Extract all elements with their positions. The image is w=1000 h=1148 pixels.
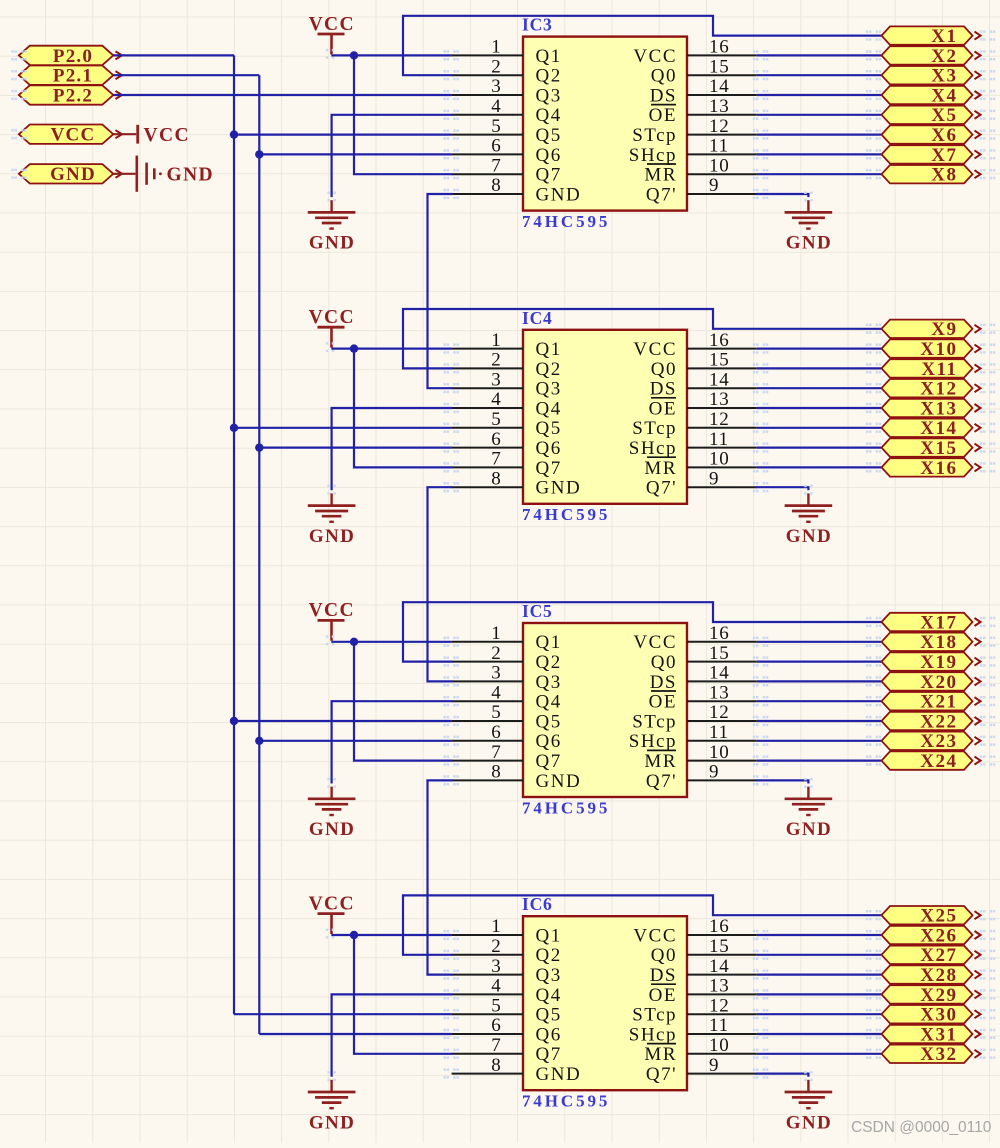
svg-text:13: 13 — [709, 682, 730, 703]
svg-text:3: 3 — [491, 369, 501, 390]
svg-text:Q7': Q7' — [646, 1064, 677, 1085]
IC3 pin 3 stub — [443, 76, 523, 100]
wire IC6 pin6 from P2.1 rail — [259, 1033, 451, 1035]
wire IC3 pin 10 to port X8 — [757, 173, 881, 175]
svg-text:GND: GND — [786, 819, 832, 840]
wire IC4 pin9 to ground — [757, 487, 809, 489]
svg-text:STcp: STcp — [632, 1005, 677, 1026]
svg-text:X7: X7 — [931, 145, 957, 166]
svg-text:Q3: Q3 — [536, 379, 562, 400]
svg-text:6: 6 — [491, 1015, 501, 1036]
svg-text:2: 2 — [491, 56, 501, 77]
wire IC6 pin9 to ground — [757, 1074, 809, 1076]
svg-text:9: 9 — [709, 762, 719, 783]
IC4 pin 11 stub — [687, 429, 768, 453]
IC5 pin 13 stub — [687, 682, 768, 706]
port X5 — [866, 105, 996, 126]
junction IC4 pin1/pin7 — [350, 344, 358, 352]
port X12 — [866, 379, 996, 400]
svg-text:Q6: Q6 — [536, 438, 562, 459]
svg-text:12: 12 — [709, 702, 730, 723]
svg-text:Q4: Q4 — [536, 692, 562, 713]
wire IC4 pin7 drop — [354, 349, 452, 468]
ground IC5 (right) — [785, 778, 833, 840]
svg-text:GND: GND — [536, 184, 582, 205]
svg-text:74HC595: 74HC595 — [522, 798, 610, 817]
GND power symbol (left, earth style) — [113, 156, 214, 192]
wire IC3 pin9 to ground — [757, 194, 809, 196]
svg-text:6: 6 — [491, 722, 501, 743]
port X10 — [866, 339, 996, 360]
ground IC4 (right) — [785, 485, 833, 547]
port X7 — [866, 145, 996, 166]
svg-text:16: 16 — [709, 330, 730, 351]
svg-text:1: 1 — [491, 623, 501, 644]
IC3 pin 7 stub — [443, 155, 523, 179]
svg-text:3: 3 — [491, 76, 501, 97]
IC4 pin 3 stub — [443, 369, 523, 393]
port P2.0 — [11, 46, 122, 67]
svg-text:SHcp: SHcp — [629, 438, 677, 459]
svg-text:GND: GND — [50, 164, 96, 185]
svg-text:9: 9 — [709, 468, 719, 489]
svg-text:Q5: Q5 — [536, 418, 562, 439]
svg-text:X28: X28 — [920, 965, 957, 986]
svg-text:OE: OE — [649, 105, 677, 126]
wire P2.1 horizontal — [113, 74, 259, 76]
port X20 — [866, 672, 996, 693]
IC3 pin 1 stub — [443, 37, 523, 61]
wire IC5 pin2 loop to port X17 — [403, 602, 881, 661]
IC6 pin 3 stub — [443, 956, 523, 980]
IC3 pin 13 stub — [687, 96, 768, 120]
wire IC6 pin 11 to port X31 — [757, 1033, 881, 1035]
svg-text:12: 12 — [709, 995, 730, 1016]
VCC power symbol (left, bar style) — [113, 125, 190, 146]
IC6 pin 12 stub — [687, 995, 768, 1019]
svg-text:7: 7 — [491, 449, 501, 470]
svg-text:X11: X11 — [921, 359, 957, 380]
svg-text:Q2: Q2 — [536, 66, 562, 87]
svg-text:VCC: VCC — [309, 14, 355, 35]
IC4 pin 9 stub — [687, 468, 768, 492]
wire IC4 pin 11 to port X15 — [757, 447, 881, 449]
port X21 — [866, 692, 996, 713]
svg-text:OE: OE — [649, 692, 677, 713]
wire IC5 pin 16 to port X18 — [757, 641, 881, 643]
IC5 pin 12 stub — [687, 702, 768, 726]
port X29 — [866, 985, 996, 1006]
svg-text:IC4: IC4 — [522, 308, 553, 328]
svg-text:3: 3 — [491, 663, 501, 684]
svg-text:X16: X16 — [920, 458, 957, 479]
svg-text:16: 16 — [709, 916, 730, 937]
svg-text:VCC: VCC — [309, 893, 355, 914]
svg-text:Q7': Q7' — [646, 478, 677, 499]
IC3 pin 9 stub — [687, 175, 768, 199]
port X31 — [866, 1024, 996, 1045]
svg-text:SHcp: SHcp — [629, 145, 677, 166]
wire IC3 pin1 from VCC — [331, 54, 451, 56]
wire IC4 pin 10 to port X16 — [757, 466, 881, 468]
IC6 74HC595 body — [523, 916, 687, 1090]
wire IC6 pin7 drop — [354, 935, 452, 1054]
svg-text:Q5: Q5 — [536, 125, 562, 146]
svg-text:GND: GND — [786, 1112, 832, 1133]
svg-text:DS: DS — [650, 379, 677, 400]
IC3 pin 10 stub — [687, 155, 768, 179]
svg-text:X2: X2 — [931, 46, 957, 67]
port X24 — [866, 751, 996, 772]
wire IC5 pin8 to IC6 pin3 — [428, 780, 452, 974]
svg-text:16: 16 — [709, 37, 730, 58]
svg-text:X17: X17 — [920, 612, 957, 633]
svg-text:2: 2 — [491, 643, 501, 664]
svg-text:SHcp: SHcp — [629, 1024, 677, 1045]
svg-text:7: 7 — [491, 155, 501, 176]
svg-text:P2.2: P2.2 — [53, 85, 93, 106]
svg-text:OE: OE — [649, 985, 677, 1006]
svg-text:GND: GND — [786, 526, 832, 547]
ground IC3 (right) — [785, 192, 833, 254]
IC6 pin 15 stub — [687, 936, 768, 960]
svg-text:X23: X23 — [920, 731, 957, 752]
svg-text:4: 4 — [491, 682, 501, 703]
svg-text:11: 11 — [709, 136, 729, 157]
ground IC4 (left) — [308, 485, 356, 547]
wire IC4 pin 15 to port X11 — [757, 367, 881, 369]
IC5 pin 5 stub — [443, 702, 523, 726]
svg-text:GND: GND — [309, 819, 355, 840]
svg-text:11: 11 — [709, 722, 729, 743]
svg-text:X25: X25 — [920, 906, 957, 927]
svg-text:VCC: VCC — [633, 339, 677, 360]
IC4 pin 15 stub — [687, 350, 768, 374]
svg-text:Q6: Q6 — [536, 1024, 562, 1045]
port X9 — [866, 319, 996, 340]
port X2 — [866, 46, 996, 67]
svg-text:6: 6 — [491, 136, 501, 157]
port X28 — [866, 965, 996, 986]
svg-text:X5: X5 — [931, 105, 957, 126]
port X15 — [866, 438, 996, 459]
svg-text:8: 8 — [491, 1055, 501, 1076]
svg-text:Q1: Q1 — [536, 46, 562, 67]
svg-text:X18: X18 — [920, 632, 957, 653]
wire IC5 pin 10 to port X24 — [757, 759, 881, 761]
IC4 pin 12 stub — [687, 409, 768, 433]
port X19 — [866, 652, 996, 673]
wire IC5 pin 14 to port X20 — [757, 680, 881, 682]
svg-text:MR: MR — [644, 1044, 677, 1065]
wire IC4 pin5 from P2.0 rail — [234, 427, 452, 429]
wire IC3 pin4 to ground — [332, 115, 452, 196]
ground IC6 (left) — [308, 1071, 356, 1133]
wire IC6 pin 15 to port X27 — [757, 954, 881, 956]
IC4 pin 1 stub — [443, 330, 523, 354]
svg-text:DS: DS — [650, 965, 677, 986]
svg-text:14: 14 — [709, 663, 730, 684]
svg-text:74HC595: 74HC595 — [522, 212, 610, 231]
svg-text:13: 13 — [709, 96, 730, 117]
IC5 pin 1 stub — [443, 623, 523, 647]
svg-text:7: 7 — [491, 1035, 501, 1056]
svg-text:X31: X31 — [920, 1024, 957, 1045]
svg-text:1: 1 — [491, 916, 501, 937]
junction P2.1 rail / IC5 pin6 — [255, 737, 263, 745]
wire IC6 pin 12 to port X30 — [757, 1013, 881, 1015]
svg-text:6: 6 — [491, 429, 501, 450]
svg-text:Q5: Q5 — [536, 711, 562, 732]
svg-text:X27: X27 — [920, 945, 957, 966]
svg-text:DS: DS — [650, 85, 677, 106]
svg-text:STcp: STcp — [632, 418, 677, 439]
IC6 VCC power symbol — [309, 893, 355, 938]
svg-text:X10: X10 — [920, 339, 957, 360]
IC5 pin 16 stub — [687, 623, 768, 647]
svg-text:11: 11 — [709, 429, 729, 450]
wire IC6 pin1 from VCC — [331, 934, 451, 936]
svg-text:Q7: Q7 — [536, 751, 562, 772]
wire IC6 pin 10 to port X32 — [757, 1053, 881, 1055]
svg-text:12: 12 — [709, 116, 730, 137]
IC6 pin 1 stub — [443, 916, 523, 940]
svg-text:8: 8 — [491, 762, 501, 783]
junction P2.1 rail / IC3 pin6 — [255, 150, 263, 158]
svg-text:2: 2 — [491, 350, 501, 371]
svg-text:X14: X14 — [920, 418, 957, 439]
svg-text:Q6: Q6 — [536, 731, 562, 752]
svg-text:IC5: IC5 — [522, 601, 553, 621]
svg-text:GND: GND — [309, 526, 355, 547]
svg-text:X13: X13 — [920, 398, 957, 419]
svg-text:Q7: Q7 — [536, 458, 562, 479]
junction IC3 pin1/pin7 — [350, 51, 358, 59]
port X11 — [866, 359, 996, 380]
port P2.1 — [11, 66, 122, 87]
svg-text:Q7': Q7' — [646, 184, 677, 205]
svg-text:CSDN @0000_0110: CSDN @0000_0110 — [851, 1119, 992, 1136]
IC5 74HC595 body — [523, 623, 687, 797]
wire IC6 pin5 from P2.0 rail — [234, 1013, 452, 1015]
svg-text:14: 14 — [709, 76, 730, 97]
port X4 — [866, 85, 996, 106]
svg-text:Q3: Q3 — [536, 85, 562, 106]
svg-text:P2.1: P2.1 — [53, 66, 93, 87]
svg-text:5: 5 — [491, 995, 501, 1016]
svg-text:GND: GND — [309, 1112, 355, 1133]
port X8 — [866, 165, 996, 186]
port X3 — [866, 66, 996, 87]
junction IC6 pin1/pin7 — [350, 931, 358, 939]
wire IC4 pin2 loop to port X9 — [403, 309, 881, 368]
svg-text:P2.0: P2.0 — [53, 46, 93, 67]
svg-text:VCC: VCC — [51, 125, 96, 146]
junction IC5 pin1/pin7 — [350, 638, 358, 646]
junction P2.0 rail / IC3 pin5 — [230, 130, 238, 138]
port X22 — [866, 711, 996, 732]
svg-text:Q6: Q6 — [536, 145, 562, 166]
IC5 pin 15 stub — [687, 643, 768, 667]
ground IC6 (right) — [785, 1071, 833, 1133]
IC3 pin 12 stub — [687, 116, 768, 140]
wire P2.1 vertical rail — [258, 75, 260, 1034]
junction P2.1 rail / IC4 pin6 — [255, 443, 263, 451]
wire IC4 pin1 from VCC — [331, 348, 451, 350]
wire IC3 pin5 from P2.0 rail — [234, 134, 452, 136]
wire IC6 pin 14 to port X28 — [757, 973, 881, 975]
svg-text:4: 4 — [491, 976, 501, 997]
IC4 VCC power symbol — [309, 307, 355, 352]
wire IC4 pin 12 to port X14 — [757, 427, 881, 429]
svg-text:15: 15 — [709, 643, 730, 664]
svg-text:GND: GND — [309, 233, 355, 254]
IC6 pin 2 stub — [443, 936, 523, 960]
svg-text:X3: X3 — [931, 66, 957, 87]
svg-text:GND: GND — [536, 478, 582, 499]
svg-text:8: 8 — [491, 175, 501, 196]
IC5 pin 10 stub — [687, 742, 768, 766]
svg-text:9: 9 — [709, 175, 719, 196]
svg-text:VCC: VCC — [309, 307, 355, 328]
port GND — [11, 164, 122, 185]
IC6 pin 11 stub — [687, 1015, 768, 1039]
svg-text:GND: GND — [536, 1064, 582, 1085]
svg-text:10: 10 — [709, 1035, 730, 1056]
junction P2.0 rail / IC4 pin5 — [230, 424, 238, 432]
wire IC5 pin4 to ground — [332, 701, 452, 782]
wire IC5 pin 11 to port X23 — [757, 740, 881, 742]
wire IC6 pin 13 to port X29 — [757, 993, 881, 995]
svg-text:Q7: Q7 — [536, 165, 562, 186]
svg-text:VCC: VCC — [309, 600, 355, 621]
svg-text:Q2: Q2 — [536, 652, 562, 673]
port X30 — [866, 1005, 996, 1026]
svg-text:Q1: Q1 — [536, 925, 562, 946]
wire IC5 pin6 from P2.1 rail — [259, 740, 451, 742]
svg-text:10: 10 — [709, 742, 730, 763]
IC6 pin 9 stub — [687, 1055, 768, 1079]
IC5 VCC power symbol — [309, 600, 355, 645]
IC5 pin 9 stub — [687, 762, 768, 786]
svg-text:74HC595: 74HC595 — [522, 1092, 610, 1111]
svg-text:Q4: Q4 — [536, 398, 562, 419]
port X17 — [866, 612, 996, 633]
IC5 pin 2 stub — [443, 643, 523, 667]
svg-text:DS: DS — [650, 672, 677, 693]
svg-text:IC6: IC6 — [522, 894, 553, 914]
svg-text:Q4: Q4 — [536, 105, 562, 126]
svg-text:Q4: Q4 — [536, 985, 562, 1006]
svg-text:MR: MR — [644, 751, 677, 772]
wire P2.2 to IC3 pin3 — [113, 94, 451, 96]
svg-text:Q0: Q0 — [651, 66, 677, 87]
IC5 pin 4 stub — [443, 682, 523, 706]
IC3 VCC power symbol — [309, 14, 355, 59]
IC5 pin 14 stub — [687, 663, 768, 687]
wire IC5 pin 13 to port X21 — [757, 700, 881, 702]
port X32 — [866, 1044, 996, 1065]
svg-text:X8: X8 — [931, 165, 957, 186]
wire IC6 pin2 loop to port X25 — [403, 895, 881, 954]
port X6 — [866, 125, 996, 146]
svg-text:5: 5 — [491, 116, 501, 137]
IC6 pin 6 stub — [443, 1015, 523, 1039]
IC4 pin 16 stub — [687, 330, 768, 354]
IC3 pin 8 stub — [443, 175, 523, 199]
svg-text:GND: GND — [786, 233, 832, 254]
svg-text:Q0: Q0 — [651, 945, 677, 966]
IC3 pin 11 stub — [687, 136, 768, 160]
svg-text:VCC: VCC — [633, 46, 677, 67]
IC3 pin 16 stub — [687, 37, 768, 61]
svg-text:1: 1 — [491, 330, 501, 351]
IC5 pin 3 stub — [443, 663, 523, 687]
IC6 pin 7 stub — [443, 1035, 523, 1059]
IC3 pin 2 stub — [443, 56, 523, 80]
wire IC4 pin 14 to port X12 — [757, 387, 881, 389]
svg-text:14: 14 — [709, 956, 730, 977]
svg-text:STcp: STcp — [632, 711, 677, 732]
IC5 pin 11 stub — [687, 722, 768, 746]
svg-text:16: 16 — [709, 623, 730, 644]
wire IC3 pin 12 to port X6 — [757, 134, 881, 136]
svg-text:13: 13 — [709, 389, 730, 410]
svg-text:X22: X22 — [920, 711, 957, 732]
IC4 pin 13 stub — [687, 389, 768, 413]
svg-text:Q7': Q7' — [646, 771, 677, 792]
wire IC5 pin5 from P2.0 rail — [234, 720, 452, 722]
IC6 pin 14 stub — [687, 956, 768, 980]
svg-text:Q7: Q7 — [536, 1044, 562, 1065]
IC4 pin 8 stub — [443, 468, 523, 492]
svg-text:X12: X12 — [920, 379, 957, 400]
wire IC3 pin7 drop — [354, 55, 452, 174]
IC4 pin 7 stub — [443, 449, 523, 473]
svg-text:X30: X30 — [920, 1005, 957, 1026]
IC3 pin 5 stub — [443, 116, 523, 140]
IC3 pin 6 stub — [443, 136, 523, 160]
svg-text:8: 8 — [491, 468, 501, 489]
svg-text:X15: X15 — [920, 438, 957, 459]
svg-text:4: 4 — [491, 96, 501, 117]
svg-text:OE: OE — [649, 398, 677, 419]
port X14 — [866, 418, 996, 439]
svg-text:Q0: Q0 — [651, 359, 677, 380]
wire IC3 pin 16 to port X2 — [757, 54, 881, 56]
svg-text:X20: X20 — [920, 672, 957, 693]
svg-text:Q2: Q2 — [536, 359, 562, 380]
svg-text:X4: X4 — [931, 85, 957, 106]
svg-text:74HC595: 74HC595 — [522, 505, 610, 524]
svg-text:X29: X29 — [920, 985, 957, 1006]
port VCC — [11, 125, 122, 146]
ground IC3 (left) — [308, 192, 356, 254]
svg-text:IC3: IC3 — [522, 15, 553, 35]
svg-text:15: 15 — [709, 56, 730, 77]
IC4 pin 4 stub — [443, 389, 523, 413]
IC3 pin 15 stub — [687, 56, 768, 80]
wire IC5 pin 12 to port X22 — [757, 720, 881, 722]
svg-text:12: 12 — [709, 409, 730, 430]
svg-text:15: 15 — [709, 350, 730, 371]
IC4 pin 14 stub — [687, 369, 768, 393]
svg-text:5: 5 — [491, 409, 501, 430]
svg-text:SHcp: SHcp — [629, 731, 677, 752]
wire IC4 pin 16 to port X10 — [757, 348, 881, 350]
IC6 pin 13 stub — [687, 976, 768, 1000]
svg-text:MR: MR — [644, 165, 677, 186]
